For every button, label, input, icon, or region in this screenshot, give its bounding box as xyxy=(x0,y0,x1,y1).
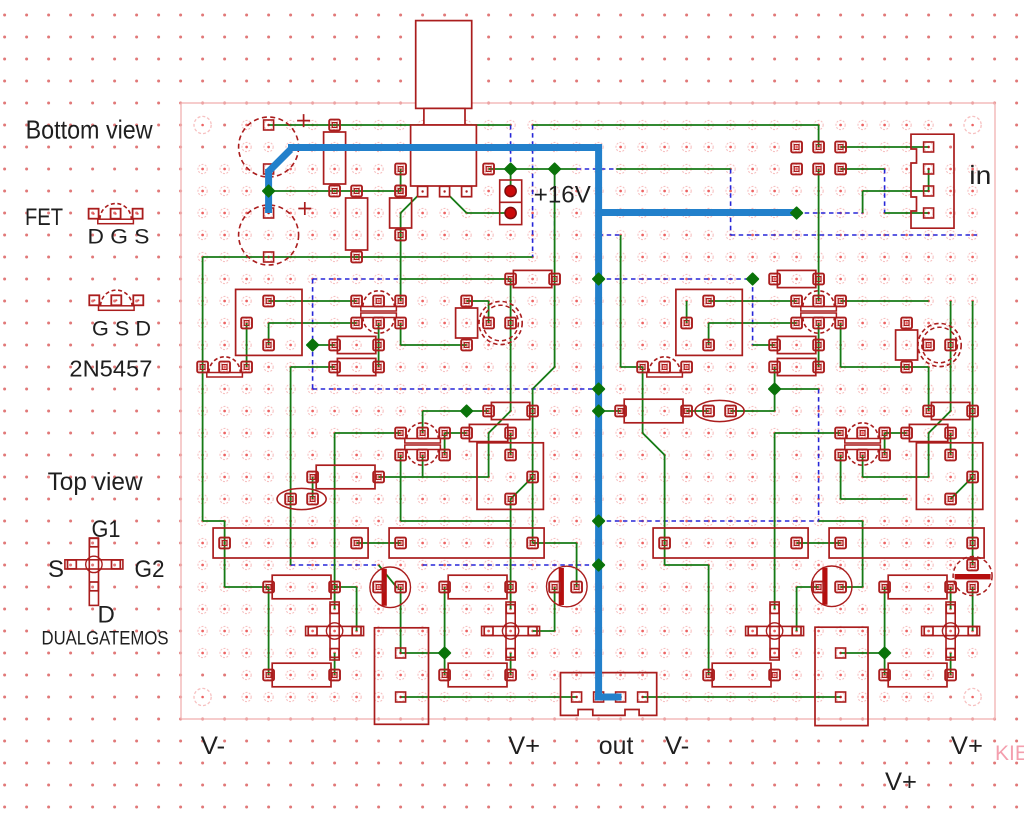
junction node (3,3) xyxy=(263,185,275,197)
relay/module box S4 xyxy=(916,443,982,510)
wire (15,23)-(16,23) xyxy=(533,630,555,632)
wire (19,11)-(20,11) xyxy=(621,366,643,368)
wire (20,26)-(29,26) xyxy=(643,696,841,698)
board outline xyxy=(181,103,995,719)
wire (30,15)-(30,16) xyxy=(862,455,864,477)
metal can transistor Q11 xyxy=(479,301,522,344)
dashed net wire (16,4)-(16,5.05) xyxy=(554,213,556,236)
wire (25,10)-(26,10) xyxy=(753,344,775,346)
transistor pair Q7/Q8 xyxy=(847,423,878,439)
resistor R19 xyxy=(448,575,507,599)
legend dual-gate MOSFET cross xyxy=(89,538,98,605)
wire (16,21)-(16,23) xyxy=(554,587,556,631)
dashed net wire (25,7)-(25,10) xyxy=(752,279,754,345)
dashed net wire (24,2)-(24,5) xyxy=(730,169,732,235)
svg-text:V+: V+ xyxy=(885,768,917,796)
wire (31,21)-(31,25) xyxy=(884,587,886,675)
dual-gate MOSFET M3 xyxy=(770,602,779,660)
resistor R13 xyxy=(909,424,947,441)
transistor pair Q5/Q6 xyxy=(407,423,438,439)
wire (0,6)-(0,18) xyxy=(202,257,204,521)
power resistor RW4 xyxy=(829,528,984,558)
power transistor T2 xyxy=(547,566,588,607)
capacitor CE2 (ellipse) xyxy=(695,400,744,421)
resistor R17 xyxy=(316,465,375,489)
wire (31,4)-(33,4) xyxy=(885,212,929,214)
wire (26,11)-(26,13) xyxy=(774,367,776,411)
resistor R12 xyxy=(469,424,507,441)
wire (23,20)-(23,25) xyxy=(708,565,710,675)
dashed net wire (18,18)-(28,18) xyxy=(599,520,819,522)
resistor R2 (vertical col7) xyxy=(346,198,368,250)
resistor R23 xyxy=(712,663,771,687)
wire (8,16)-(13,16) xyxy=(379,476,489,478)
wire (9,26)-(17,26) xyxy=(401,696,577,698)
wire (22,8)-(22,9) xyxy=(686,301,688,323)
+16V supply pad (14,4) xyxy=(505,207,516,218)
connector V+ (right bottom) xyxy=(815,627,868,725)
wire (33,11)-(33,13) xyxy=(928,367,930,411)
junction node (18,18) xyxy=(593,515,605,527)
electrolytic capacitor C2 xyxy=(239,205,299,265)
blue power trace: stub to out connector xyxy=(595,694,622,701)
wire (0,18)-(1,18) xyxy=(203,520,225,522)
connector IN (right edge) xyxy=(911,134,954,228)
wire (14,14)-(14,15) xyxy=(510,433,512,455)
resistor R22 xyxy=(448,663,507,687)
relay/module box S3 xyxy=(676,289,742,355)
+16V supply pad (14,3) xyxy=(505,185,516,196)
wire (20,11)-(20,14) xyxy=(642,367,644,433)
connector V- (left bottom) xyxy=(375,628,429,725)
svg-text:V-: V- xyxy=(665,732,690,760)
wire (15,0)-(28,0) xyxy=(533,124,819,126)
wire (9,4)-(9,5) xyxy=(400,213,402,235)
wire (28,2)-(28,8) xyxy=(818,169,820,301)
wire (26,14)-(29,14) xyxy=(775,432,841,434)
wire (6,14)-(9,14) xyxy=(335,432,401,434)
dashed net wire (14,0)-(14,2) xyxy=(510,125,512,169)
transistor Q10 (TO-92) xyxy=(649,357,680,373)
wire (23,8)-(27,8) xyxy=(709,300,797,302)
wire (14,2)-(14,3) xyxy=(510,169,512,191)
resistor R16 xyxy=(624,399,683,423)
wire (34,17)-(35,16) xyxy=(951,477,973,499)
wire (10,13)-(10,14) xyxy=(422,411,424,433)
wire (9,10)-(12,10) xyxy=(401,344,467,346)
wire (29,1)-(33,1) xyxy=(841,146,929,148)
resistor R1 (vertical col6) xyxy=(324,132,346,184)
wire (11,14)-(11,15) xyxy=(444,433,446,455)
wire (8,20)-(8.85,21.05) xyxy=(379,565,398,588)
wire (30,3)-(33,3) xyxy=(863,190,929,192)
junction node (31,24) xyxy=(879,647,891,659)
power resistor RW3 xyxy=(653,528,808,558)
dashed net wire (5,7)-(5,12) xyxy=(312,279,314,389)
wire (5,10)-(6,10) xyxy=(313,344,335,346)
wire (24,13)-(26,13) xyxy=(731,410,775,412)
wire (29,9)-(29,11) xyxy=(840,323,842,367)
wire (6,24)-(6,25) xyxy=(334,653,336,675)
resistor R18 xyxy=(272,575,331,599)
legend FET symbol (D G S) xyxy=(100,204,131,220)
svg-text:2N5457: 2N5457 xyxy=(69,356,152,382)
dashed net wire (5,7)-(9,7) xyxy=(313,278,401,280)
wire (14,24)-(14,25) xyxy=(510,653,512,675)
corner mounting holes xyxy=(194,116,211,133)
wire (33,2)-(33,3) xyxy=(928,169,930,191)
blue power trace: branch to +16V net row4 xyxy=(599,209,795,216)
wire (6,21)-(7,21) xyxy=(335,586,357,588)
dashed net wire (31,2)-(31,4) xyxy=(884,169,886,213)
transistor pair Q1/Q2 xyxy=(363,291,394,307)
potentiometer P1 top shaft xyxy=(416,21,472,109)
wire (9,9)-(9,10) xyxy=(400,323,402,345)
wire (10,15)-(10,16) xyxy=(422,455,424,477)
svg-text:KIE: KIE xyxy=(995,742,1024,765)
wire (11,21)-(11,25) xyxy=(444,587,446,675)
wire (29,2)-(31,2) xyxy=(841,168,885,170)
blue power trace: main vertical run col18 xyxy=(595,144,602,697)
blue power trace: cap C1 to cap C2 vertical xyxy=(265,169,272,213)
wire (3,9)-(7,9) xyxy=(269,322,357,324)
wire (5,16)-(5,17) xyxy=(312,477,314,499)
wire (13,2)-(17,2) xyxy=(489,168,577,170)
wire (16,2)-(16,11) xyxy=(554,169,556,367)
power resistor RW2 xyxy=(389,528,544,558)
wire (22,13)-(23,13) xyxy=(687,410,709,412)
wire (34,8)-(34,13) xyxy=(950,301,952,411)
wire (0,6)-(15,6) xyxy=(203,256,533,258)
wire (7,19)-(9,19) xyxy=(357,542,401,544)
metal can transistor Q12 xyxy=(918,323,961,366)
wire (21,20)-(23,20) xyxy=(665,564,709,566)
wire (35,8)-(35,20) xyxy=(972,301,974,565)
wire (9,5)-(9,8) xyxy=(400,235,402,301)
resistor R4 (vertical col12) xyxy=(456,308,478,338)
svg-text:V-: V- xyxy=(201,732,226,760)
dashed net wire (10,20)-(18,20) xyxy=(423,564,599,566)
dashed net wire (17,2)-(18.9,2) xyxy=(577,168,619,170)
svg-text:DUALGATEMOS: DUALGATEMOS xyxy=(42,629,169,650)
potentiometer P1 body xyxy=(411,125,477,186)
junction node (18,20) xyxy=(593,559,605,571)
wire (16,11)-(15,12) xyxy=(533,367,555,389)
relay/module box S2 xyxy=(477,443,543,510)
wire (29,24)-(31,24) xyxy=(841,652,885,654)
wire (3,8)-(7,8) xyxy=(269,300,357,302)
power transistor T1 xyxy=(370,567,411,608)
wire (11,14)-(12,14) xyxy=(445,432,467,434)
wire (4,11)-(4,20) xyxy=(290,367,292,565)
resistor R9 xyxy=(777,336,815,353)
metal can transistor Q13 with tab xyxy=(953,557,992,596)
wire (31,14)-(32,14) xyxy=(885,432,907,434)
wire (29,15)-(29,17) xyxy=(840,455,842,499)
+16V power header J1 xyxy=(500,180,522,225)
svg-text:+16V: +16V xyxy=(534,182,591,209)
svg-text:FET: FET xyxy=(25,204,63,231)
junction node (26,12) xyxy=(769,383,781,395)
wire (9,2)-(9,3) xyxy=(400,169,402,191)
wire (35,21)-(35,23) xyxy=(972,587,974,631)
wire (34,21)-(34,22) xyxy=(950,587,952,609)
svg-text:S: S xyxy=(48,556,64,583)
wire (34,14)-(34,15) xyxy=(950,433,952,455)
capacitor CE1 (ellipse) xyxy=(277,488,326,509)
wire (3,3)-(9,3) xyxy=(269,190,401,192)
wire (20,14)-(21,15) xyxy=(643,433,665,455)
svg-text:V+: V+ xyxy=(951,732,983,760)
wire (15,19)-(17,19) xyxy=(533,542,577,544)
wire (14,13)-(13,14) xyxy=(489,411,511,433)
svg-text:D G S: D G S xyxy=(88,226,150,249)
resistor R8 xyxy=(337,358,375,375)
wire (31,14)-(31,15) xyxy=(884,433,886,455)
input pad cluster xyxy=(791,142,802,153)
wire (12,8)-(13,8) xyxy=(467,300,489,302)
wire (9,7)-(14,7) xyxy=(401,278,511,280)
wire (34,13)-(33,14) xyxy=(929,411,951,433)
resistor R15 xyxy=(931,402,969,419)
dual-gate MOSFET M2 xyxy=(506,602,515,660)
dual-gate MOSFET M4 xyxy=(946,602,955,660)
svg-text:Top view: Top view xyxy=(48,468,144,496)
wire (10,13)-(13,13) xyxy=(423,410,489,412)
wire (21,15)-(21,20) xyxy=(664,455,666,565)
junction node (25,7) xyxy=(747,273,759,285)
svg-text:Bottom view: Bottom view xyxy=(26,115,153,145)
wire (14,7)-(14,13) xyxy=(510,279,512,411)
resistor R21 xyxy=(272,663,331,687)
wire (30,3)-(30,4) xyxy=(862,191,864,213)
wire (6,14)-(6,22) xyxy=(334,433,336,609)
junction node (18,12) xyxy=(593,383,605,395)
pad (13,2) xyxy=(483,164,494,175)
wire (14,17)-(15,16) xyxy=(511,477,533,499)
dashed net wire (18,7)-(25,7) xyxy=(599,278,753,280)
junction node (18,7) xyxy=(593,273,605,285)
wire (23,9)-(23,10) xyxy=(708,323,710,345)
wire (27,21)-(28,21) xyxy=(797,586,819,588)
wire (29,21)-(30,21) xyxy=(841,586,863,588)
wire (14,17)-(14,22) xyxy=(510,499,512,609)
dashed net wire (18,5)-(19,5) xyxy=(599,234,621,236)
wire (29,17)-(32,17) xyxy=(841,498,907,500)
dashed net wire (27,4)-(30,4) xyxy=(797,212,863,214)
svg-text:in: in xyxy=(969,160,991,190)
resistor R6 xyxy=(777,270,815,287)
resistor R10 xyxy=(777,358,815,375)
svg-text:D: D xyxy=(98,602,115,629)
wire (12,4)-(14,4) xyxy=(467,212,511,214)
dual-gate MOSFET M1 xyxy=(330,602,339,660)
wire (26,12)-(28,12) xyxy=(775,388,819,390)
wire (28,0)-(28,1) xyxy=(818,125,820,147)
dashed net wire (4,20)-(8,20) xyxy=(291,564,379,566)
junction node (12,13) xyxy=(461,405,473,417)
svg-text:G2: G2 xyxy=(135,556,165,583)
wire (8,9)-(8,11) xyxy=(378,323,380,367)
dashed net wire (24,5)-(35.2,5) xyxy=(731,234,977,236)
wire (30,16)-(33,16) xyxy=(863,476,929,478)
svg-text:V+: V+ xyxy=(508,732,540,760)
wire (26,14)-(26,22) xyxy=(774,433,776,609)
wire (1,21)-(3,21) xyxy=(225,586,269,588)
junction node (27,4) xyxy=(791,207,803,219)
dashed net wire (28,12)-(28,18) xyxy=(818,389,820,521)
wire (27,19)-(29,19) xyxy=(797,542,841,544)
transistor pair Q3/Q4 xyxy=(803,291,834,307)
wire (3,0)-(14,0) xyxy=(269,124,511,126)
blue power trace: top horizontal run xyxy=(288,144,599,151)
wire (28,9)-(28,11) xyxy=(818,323,820,367)
wire (27,21)-(27,23) xyxy=(796,587,798,631)
wire (2,9)-(2,11) xyxy=(246,323,248,367)
wire (9,15)-(9,18) xyxy=(400,455,402,521)
wire (1,18)-(1,21) xyxy=(224,521,226,587)
connector OUT (bottom) xyxy=(561,673,657,716)
power resistor RW1 xyxy=(213,528,368,558)
wire (18.8,2)-(24,2) xyxy=(616,168,730,170)
wire (10,3)-(9,4) xyxy=(401,191,423,213)
wire (29,8)-(33,8) xyxy=(841,300,929,302)
wire (33,14)-(33,16) xyxy=(928,433,930,477)
wire (13,8)-(13,9) xyxy=(488,301,490,323)
electrolytic capacitor C1 xyxy=(239,117,299,177)
wire (7,21)-(7,23) xyxy=(356,587,358,631)
wire (3,9)-(3,10) xyxy=(268,323,270,345)
wire (9,18)-(14,18) xyxy=(401,520,511,522)
wire (3,21)-(3,25) xyxy=(268,587,270,675)
pads (9,2),(9,3) xyxy=(395,164,406,175)
relay/module box S1 xyxy=(236,289,302,355)
wire (30,18)-(30,21) xyxy=(862,521,864,587)
wire (23,9)-(27,9) xyxy=(709,322,797,324)
wire (29,11)-(33,11) xyxy=(841,366,929,368)
resistor R5 (vertical col32) xyxy=(896,330,918,360)
resistor R7 xyxy=(337,336,375,353)
power transistor T3 xyxy=(811,566,852,607)
resistor R24 xyxy=(888,663,947,687)
resistor R14 xyxy=(513,270,551,287)
dashed net wire (5,12)-(18,12) xyxy=(313,388,599,390)
resistor R20 xyxy=(888,575,947,599)
junction node (5,10) xyxy=(307,339,319,351)
wire (11,3)-(12,4) xyxy=(445,191,467,213)
board pad hole grid xyxy=(198,120,977,701)
resistor R3 (vertical col9) xyxy=(390,198,412,228)
svg-text:out: out xyxy=(599,732,634,760)
wire (15,12)-(15,19) xyxy=(532,389,534,543)
wire (17,19)-(17,21) xyxy=(576,543,578,587)
wire (13,14)-(13,16) xyxy=(488,433,490,477)
legend FET symbol (G S D) xyxy=(101,290,132,306)
wire (18,13)-(19,13) xyxy=(599,410,621,412)
junction node (16,2) xyxy=(549,163,561,175)
wire (34,24)-(34,25) xyxy=(950,653,952,675)
junction node (11,24) xyxy=(439,647,451,659)
wire (19,5)-(19,11) xyxy=(620,235,622,367)
transistor Q9 (TO-92) xyxy=(209,357,240,373)
dashed net wire (15,0)-(15,6) xyxy=(532,125,534,257)
blue power trace: diagonal from cap C1 pad xyxy=(269,150,291,172)
resistor R11 xyxy=(491,402,529,419)
junction node (18,13) xyxy=(593,405,605,417)
wire (9,21)-(9,24) xyxy=(400,587,402,653)
wire (9,24)-(11,24) xyxy=(401,652,445,654)
svg-text:G S D: G S D xyxy=(92,318,151,341)
wire (4,11)-(6,11) xyxy=(291,366,335,368)
junction node (14,2) xyxy=(505,163,517,175)
wire (28,18)-(30,18) xyxy=(819,520,863,522)
